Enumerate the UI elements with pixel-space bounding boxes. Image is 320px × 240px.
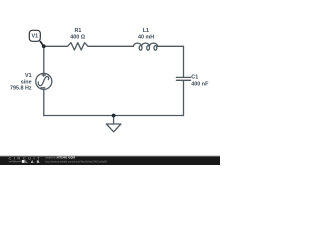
svg-text:V1: V1 <box>32 33 39 39</box>
svg-text:created at: AST10401 A2Q06: created at: AST10401 A2Q06 <box>45 156 75 160</box>
svg-text:400 nF: 400 nF <box>191 81 209 87</box>
svg-text:sine: sine <box>21 79 32 85</box>
svg-text:C1: C1 <box>191 75 198 81</box>
svg-text:V1: V1 <box>25 73 32 79</box>
svg-text:L1: L1 <box>143 28 149 34</box>
svg-text:R1: R1 <box>74 28 81 34</box>
svg-text:40 mH: 40 mH <box>138 34 154 40</box>
svg-text:LAB: LAB <box>25 160 39 164</box>
svg-text:http://www.circuitlab.com/circ: http://www.circuitlab.com/circuit/3bce3i… <box>45 159 107 163</box>
svg-text:400 Ω: 400 Ω <box>70 34 85 40</box>
svg-text:795.8 Hz: 795.8 Hz <box>10 86 32 92</box>
